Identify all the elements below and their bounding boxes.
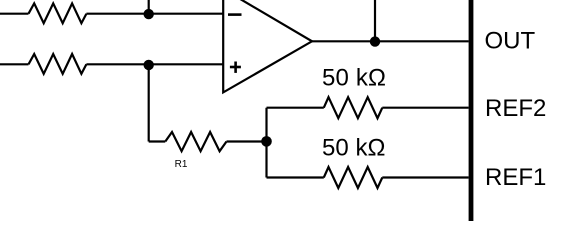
junction dot node B (non-inverting) — [144, 60, 154, 70]
wire resistor to op-amp minus input — [86, 13, 223, 15]
resistor 50k REF2 — [324, 97, 383, 118]
svg-text:R1: R1 — [175, 159, 188, 170]
wire REF1 left lead — [267, 176, 324, 178]
junction dot node A (inverting) — [144, 9, 154, 19]
svg-text:REF2: REF2 — [485, 95, 546, 122]
IC package edge bar — [469, 0, 474, 221]
junction dot node C (R1/feedback rail) — [261, 136, 272, 147]
wire REF2 resistor to pin — [382, 107, 468, 109]
op-amp U1 triangle — [223, 0, 312, 92]
resistor top (inverting input) — [29, 3, 87, 23]
resistor 50k REF1 — [324, 167, 383, 188]
wire inverting input left segment — [0, 13, 29, 15]
op-amp minus input symbol — [228, 13, 242, 16]
svg-text:50 kΩ: 50 kΩ — [322, 134, 386, 161]
svg-text:50 kΩ: 50 kΩ — [322, 64, 386, 91]
wire resistor to op-amp plus input — [86, 63, 223, 65]
junction dot output node — [370, 36, 380, 46]
wire output node vertical to top — [374, 0, 376, 41]
wire R1 to node C — [227, 140, 267, 142]
svg-text:OUT: OUT — [485, 27, 536, 54]
wire R1 left lead — [149, 140, 166, 142]
wire REF2 left lead — [267, 107, 324, 109]
resistor second (non-inverting input) — [29, 54, 87, 74]
wire REF1 resistor to pin — [382, 176, 468, 178]
wire node A vertical stub to top edge — [148, 0, 150, 14]
wire non-inverting input left segment — [0, 63, 29, 65]
svg-text:REF1: REF1 — [485, 164, 546, 191]
wire op-amp output — [312, 40, 469, 42]
resistor R1 — [165, 132, 226, 151]
op-amp plus input symbol — [230, 62, 241, 73]
wire node B vertical down to R1 — [148, 64, 150, 141]
wire feedback rail vertical — [265, 108, 267, 178]
